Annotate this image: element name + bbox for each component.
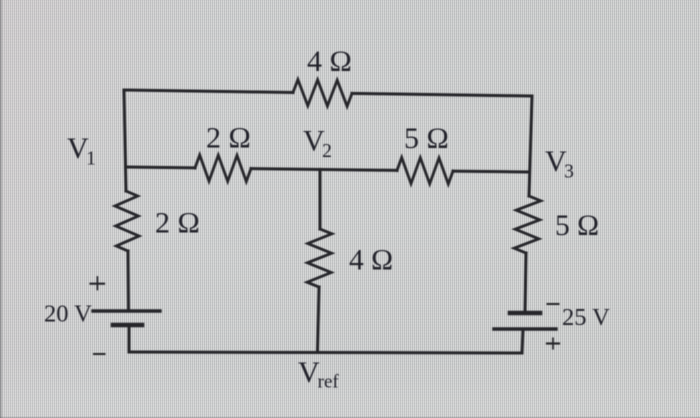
svg-text:4 Ω: 4 Ω bbox=[349, 245, 393, 277]
wire top rail left segment bbox=[124, 90, 293, 93]
svg-text:V2: V2 bbox=[303, 125, 332, 163]
svg-text:25 V: 25 V bbox=[562, 304, 610, 331]
svg-text:20 V: 20 V bbox=[44, 301, 92, 328]
resistor 4 ohm (middle branch) bbox=[307, 229, 332, 287]
wire left branch upper (node V1) bbox=[124, 90, 126, 191]
battery 25 V short plate (-) bbox=[510, 311, 540, 316]
resistor 2 ohm (middle rail) bbox=[195, 155, 251, 182]
resistor 2 ohm (left branch) bbox=[115, 191, 139, 251]
wire left branch to battery bbox=[127, 251, 131, 311]
battery 20 V long plate (+) bbox=[93, 309, 160, 312]
wire middle rail 5ohm-V3 segment bbox=[453, 170, 529, 174]
wire bottom rail (node Vref) bbox=[129, 352, 522, 353]
resistor 5 ohm (right branch) bbox=[514, 196, 541, 253]
wire top rail right segment bbox=[352, 93, 532, 96]
plus sign (25 V bottom) bbox=[547, 338, 559, 348]
wire battery to bottom rail (right) bbox=[522, 329, 523, 353]
svg-text:V3: V3 bbox=[545, 145, 574, 183]
wire middle branch upper (node V2) bbox=[319, 169, 322, 229]
wire battery to bottom rail (left) bbox=[128, 325, 131, 352]
svg-text:Vref: Vref bbox=[298, 356, 339, 393]
resistor 4 ohm (top) bbox=[293, 80, 352, 107]
svg-text:2 Ω: 2 Ω bbox=[155, 207, 200, 240]
resistor 5 ohm (middle rail) bbox=[397, 158, 453, 185]
svg-text:2 Ω: 2 Ω bbox=[206, 122, 251, 155]
svg-text:5 Ω: 5 Ω bbox=[404, 122, 449, 155]
wire middle rail 2ohm-V2 segment bbox=[251, 169, 397, 171]
svg-text:5 Ω: 5 Ω bbox=[555, 210, 599, 242]
battery 25 V long plate (+) bbox=[494, 327, 556, 330]
wire middle rail V1-2ohm segment bbox=[126, 166, 196, 170]
wire right branch to battery bbox=[525, 253, 526, 313]
plus sign (20 V top) bbox=[91, 277, 105, 290]
minus sign (20 V bottom) bbox=[94, 353, 105, 355]
battery 20 V short plate (-) bbox=[113, 323, 142, 328]
wire right branch upper (node V3) bbox=[529, 96, 532, 196]
minus sign (25 V top) bbox=[548, 303, 559, 305]
svg-text:V1: V1 bbox=[67, 132, 96, 170]
svg-text:4 Ω: 4 Ω bbox=[307, 45, 352, 78]
wire middle branch to bottom rail bbox=[318, 287, 320, 352]
